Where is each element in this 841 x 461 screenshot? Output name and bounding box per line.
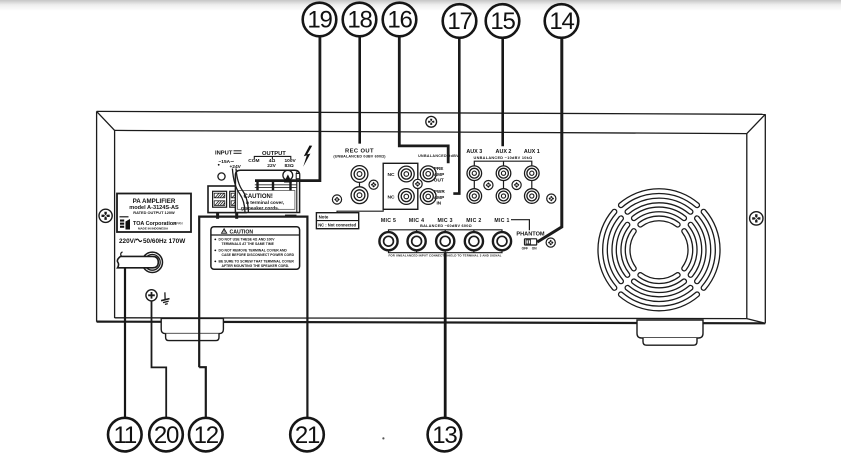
svg-text:PA AMPLIFIER: PA AMPLIFIER (133, 198, 176, 205)
svg-text:16: 16 (387, 7, 412, 34)
MIC1 to PHANTOM bracket (511, 220, 529, 231)
svg-text:11: 11 (114, 422, 137, 449)
svg-text:18: 18 (347, 7, 372, 34)
svg-text:INPUT: INPUT (215, 151, 233, 157)
terminal cover plate (235, 170, 299, 216)
leader line 11 (124, 268, 126, 417)
svg-text:RATED OUTPUT 120W: RATED OUTPUT 120W (133, 210, 175, 215)
svg-text:AUX 1: AUX 1 (524, 149, 540, 155)
callout 14 (545, 4, 579, 38)
outer top edge (97, 111, 766, 114)
leader line 16 (399, 37, 448, 164)
svg-text:AMP: AMP (434, 172, 444, 177)
svg-text:ON: ON (532, 246, 537, 250)
svg-text:19: 19 (307, 7, 332, 34)
bottom-right diagonal (747, 319, 766, 324)
callout 11 (108, 418, 142, 452)
svg-text:14: 14 (549, 8, 574, 35)
svg-text:83Ω: 83Ω (285, 163, 294, 169)
svg-text:12: 12 (194, 422, 219, 449)
note box (NC note) (316, 209, 383, 228)
NC box group (383, 163, 418, 209)
callout 19 (303, 3, 337, 37)
PA AMPLIFIER rating label (117, 194, 191, 233)
small hole left of cover (218, 173, 225, 180)
right foot (637, 320, 703, 345)
power cord bushing (142, 252, 162, 272)
leader line 18 (358, 37, 361, 144)
inner bottom edge (115, 317, 747, 320)
svg-text:MADE IN INDONESIA: MADE IN INDONESIA (138, 226, 169, 230)
leader line 15 (501, 38, 504, 146)
lower CAUTION label (211, 227, 300, 270)
svg-text:IN: IN (437, 200, 442, 205)
svg-text:COM: COM (248, 158, 259, 164)
terminal indicator bars under leader 19 (256, 181, 258, 191)
svg-text:NC : Not connected: NC : Not connected (318, 223, 356, 228)
top face screw (426, 116, 437, 127)
outer left edge (96, 111, 98, 321)
top-right diagonal (747, 114, 766, 133)
svg-text:(UNBALANCED 0dBV 600Ω): (UNBALANCED 0dBV 600Ω) (333, 154, 386, 158)
callout 12 (189, 418, 223, 452)
REC OUT group (333, 149, 386, 204)
svg-text:MIC 5: MIC 5 (381, 218, 396, 224)
right face screw (750, 212, 763, 225)
ground screw (146, 290, 157, 301)
top-left diagonal (97, 111, 115, 130)
speaker terminal block (208, 186, 246, 213)
svg-text:220V/: 220V/ (119, 238, 136, 245)
wires S-curve through cover (232, 169, 245, 213)
leader line 19 (255, 37, 320, 181)
svg-text:PHANTOM: PHANTOM (516, 231, 545, 237)
MIC group (379, 218, 511, 258)
svg-text:PRE: PRE (434, 166, 444, 171)
svg-text:PWR: PWR (434, 189, 446, 194)
leader line 14 (537, 38, 562, 242)
svg-text:AMP: AMP (434, 195, 444, 200)
svg-text:17: 17 (447, 8, 472, 35)
outer bottom edge (97, 322, 766, 324)
leader line 17 (453, 38, 459, 194)
callout 15 (486, 4, 520, 38)
svg-text:BALANCED −60dBV 600Ω: BALANCED −60dBV 600Ω (420, 224, 472, 228)
svg-text:MIC 2: MIC 2 (466, 218, 481, 224)
svg-text:UNBALANCED 0dBV: UNBALANCED 0dBV (418, 154, 459, 158)
svg-text:CAUTION!: CAUTION! (244, 194, 273, 200)
fan grille (600, 191, 717, 308)
outer right edge (764, 114, 766, 323)
svg-text:MIC 4: MIC 4 (409, 218, 424, 224)
svg-text:15: 15 (490, 8, 515, 35)
leader line 13 (444, 253, 447, 418)
panel small screws (332, 195, 341, 204)
lightning bolt (303, 146, 312, 167)
big callout box around caution label (leaders 12 and 21) (199, 217, 307, 418)
cover screw (283, 170, 293, 180)
svg-text:MIC 3: MIC 3 (438, 218, 453, 224)
svg-text:OFF: OFF (522, 246, 528, 250)
svg-text:CASE BEFORE DISCONNECT POWER C: CASE BEFORE DISCONNECT POWER CORD (222, 253, 295, 257)
svg-text:n terminal cover,: n terminal cover, (246, 200, 285, 206)
terminal strip shelf lines behind bars (255, 184, 297, 186)
PRE AMP OUT / PWR AMP IN group (418, 154, 459, 206)
arrowhead 19 (284, 174, 292, 182)
svg-text:AUX 2: AUX 2 (496, 149, 512, 155)
svg-text:50/60Hz 170W: 50/60Hz 170W (143, 238, 186, 245)
svg-text:UNBALANCED −10dBV 10kΩ: UNBALANCED −10dBV 10kΩ (474, 156, 533, 160)
svg-text:g speaker cords.: g speaker cords. (241, 205, 279, 211)
inner top edge (115, 130, 747, 133)
chassis outline 3D box (97, 111, 766, 323)
svg-text:AFTER MOUNTING THE SPEAKER COR: AFTER MOUNTING THE SPEAKER CORD. (222, 264, 290, 268)
AUX group (466, 149, 539, 203)
scan dot artifact (382, 437, 384, 439)
svg-text:NC: NC (388, 195, 396, 201)
svg-text:Note: Note (319, 215, 329, 220)
power cord (117, 256, 158, 267)
svg-text:OUT: OUT (434, 177, 444, 182)
left foot (161, 318, 223, 340)
callout 16 (383, 3, 417, 37)
callout 20 (149, 418, 183, 452)
callout 21 (290, 418, 324, 452)
leader line 20 (152, 301, 167, 418)
svg-text:21: 21 (295, 422, 320, 449)
svg-text:TERMINALS AT THE SAME TIME: TERMINALS AT THE SAME TIME (222, 242, 275, 246)
svg-text:13: 13 (432, 422, 457, 449)
callout 17 (443, 4, 477, 38)
caution text plate on cover (237, 191, 295, 212)
left face screw (99, 209, 112, 222)
svg-text:NC: NC (388, 172, 396, 178)
inner left edge (114, 130, 116, 318)
svg-text:JAPAN: JAPAN (173, 222, 184, 226)
svg-text:MIC 1: MIC 1 (494, 218, 509, 224)
ground symbol (159, 292, 170, 305)
callout 18 (343, 3, 377, 37)
PHANTOM switch group (516, 231, 545, 250)
terminal wires down to box (216, 213, 219, 219)
callout 13 (428, 418, 462, 452)
svg-text:20: 20 (154, 422, 179, 449)
svg-text:AUX 3: AUX 3 (466, 149, 482, 155)
inner right edge (746, 134, 748, 319)
svg-text:22V: 22V (267, 163, 276, 169)
